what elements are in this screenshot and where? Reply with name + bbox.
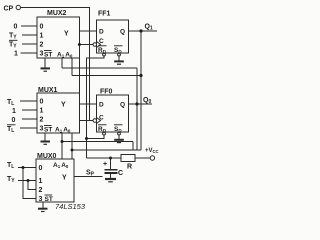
svg-text:2: 2: [39, 187, 43, 194]
svg-text:A1A0: A1A0: [55, 127, 71, 134]
wire FF1 RD to reset trunk: [87, 56, 105, 158]
wire MUX2 ST stub: [44, 58, 46, 68]
wire MUX1 ST stub: [44, 133, 46, 141]
svg-text:TY: TY: [7, 176, 15, 184]
clock bubble FF1: [93, 43, 97, 47]
overbar MUX1 ST: [44, 125, 52, 127]
mux MUX0 box: [36, 159, 74, 202]
svg-text:ST: ST: [45, 196, 53, 203]
wire MUX0 ST stub: [42, 202, 44, 208]
svg-text:Y: Y: [64, 31, 69, 38]
svg-text:FF0: FF0: [100, 89, 113, 96]
junction reset trunk / FF0 RD: [85, 137, 88, 140]
svg-text:MUX1: MUX1: [38, 87, 58, 94]
capacitor C stub bottom: [110, 174, 112, 179]
svg-text:2: 2: [40, 117, 44, 124]
junction Q1: [139, 29, 142, 32]
svg-text:1: 1: [39, 178, 43, 185]
wire ST node line: [87, 157, 122, 159]
wire CP to FF0 clock: [79, 120, 93, 122]
wire FF0 Q output: [129, 103, 153, 105]
svg-text:C: C: [118, 170, 123, 177]
svg-text:TL: TL: [7, 162, 14, 170]
svg-text:0: 0: [12, 117, 16, 124]
overbar MUX2 ST: [44, 50, 52, 52]
svg-text:3: 3: [39, 196, 43, 203]
ground under MUX1 ST: [41, 141, 51, 143]
junction cap tap: [109, 157, 112, 160]
svg-text:TL: TL: [7, 99, 14, 107]
wire Q1 trunk jog: [133, 142, 141, 151]
wire input TL to MUX0 pin0: [18, 167, 36, 169]
ground under FF1 SD: [114, 60, 124, 62]
capacitor C stub top: [110, 158, 112, 169]
wire input Tybar to MUX2 pin2: [22, 43, 37, 45]
wire FF1 Q output: [129, 30, 158, 32]
svg-text:D: D: [99, 29, 104, 36]
wire FF1 SD stub: [118, 56, 120, 61]
wire input 1 to MUX2 pin3: [21, 52, 38, 54]
ground under MUX0 ST: [38, 208, 48, 210]
svg-text:D: D: [99, 102, 104, 109]
svg-text:FF1: FF1: [98, 11, 111, 18]
wire gap2 upper feedback line: [62, 141, 133, 143]
wire Q1 trunk vertical: [140, 31, 142, 150]
svg-text:1: 1: [12, 108, 16, 115]
wire MUX1 A0 stub down to MUX0: [71, 133, 73, 159]
wire input TLbar to MUX1 pin3: [20, 127, 37, 129]
svg-text:SD: SD: [114, 126, 122, 133]
wire input 0 to MUX2 pin0: [21, 25, 37, 27]
flipflop FF0 box: [97, 95, 129, 132]
svg-text:TY: TY: [9, 42, 17, 50]
mux MUX2 box: [37, 17, 80, 58]
svg-text:TY: TY: [9, 33, 17, 41]
svg-text:0: 0: [40, 24, 44, 31]
wire MUX0 Y serial output: [74, 176, 103, 178]
junction Q1 trunk / gap1 lower: [139, 74, 142, 77]
junction TL branch: [22, 166, 25, 169]
svg-text:1: 1: [40, 108, 44, 115]
wire clock rail along mux edges: [78, 45, 80, 121]
terminal +Vcc circle: [150, 156, 154, 160]
svg-text:Y: Y: [62, 175, 67, 182]
svg-text:SP: SP: [86, 170, 95, 178]
capacitor C plates: [105, 169, 118, 171]
wire CP trunk vertical: [89, 8, 91, 122]
wire gap1 upper feedback line: [62, 67, 137, 69]
wire MUX1 A1 stub down to MUX0: [61, 133, 63, 159]
overbar Ty input: [9, 39, 18, 41]
pin bubble FF1 RD: [103, 53, 106, 56]
svg-text:3: 3: [40, 126, 44, 133]
svg-text:3: 3: [40, 51, 44, 58]
overbar FF0 RD: [98, 124, 107, 126]
ground under capacitor C: [105, 178, 116, 180]
clock wedge FF1: [97, 42, 101, 48]
svg-text:C: C: [99, 115, 104, 122]
junction A1 gap2: [61, 140, 64, 143]
clock bubble FF0: [93, 119, 97, 123]
svg-text:+VCC: +VCC: [145, 148, 159, 154]
svg-text:RD: RD: [98, 47, 107, 54]
wire MUX1 Y to FF0 D: [80, 103, 97, 105]
ground under FF0 SD: [114, 139, 124, 141]
wire CP to FF1 clock: [79, 44, 93, 46]
junction TY branch: [27, 179, 30, 182]
svg-text:MUX2: MUX2: [47, 10, 67, 17]
svg-text:ST: ST: [44, 52, 52, 59]
overbar FF1 SD: [114, 45, 123, 47]
svg-text:MUX0: MUX0: [37, 153, 57, 160]
svg-text:74LS153: 74LS153: [55, 202, 86, 211]
wire gap2 lower feedback line: [72, 149, 137, 151]
wire input TY to MUX0 pin1: [18, 180, 36, 182]
mux MUX1 box: [37, 93, 80, 133]
wire MUX2 Y to FF1 D: [80, 30, 97, 32]
junction CP-FF1C: [78, 43, 81, 46]
svg-text:RD: RD: [98, 126, 107, 133]
svg-text:2: 2: [40, 42, 44, 49]
terminal CP circle: [16, 5, 20, 9]
svg-text:0: 0: [39, 165, 43, 172]
svg-text:+: +: [103, 161, 107, 168]
clock wedge FF0: [97, 118, 101, 124]
overbar TL input: [7, 124, 16, 126]
svg-text:TL: TL: [7, 126, 14, 134]
wire FF0 SD stub: [118, 135, 120, 139]
svg-text:SD: SD: [114, 47, 122, 54]
wire MUX2 A1 stub: [61, 58, 63, 68]
svg-text:0: 0: [40, 99, 44, 106]
wire input 0 to MUX1 pin2: [22, 118, 37, 120]
ground under MUX2 ST: [41, 67, 51, 69]
svg-text:1: 1: [40, 33, 44, 40]
svg-text:Q: Q: [120, 29, 125, 36]
svg-text:Q: Q: [120, 102, 125, 109]
wire FF0 RD to reset trunk: [87, 135, 105, 139]
wire MUX2 A0 stub: [71, 58, 73, 76]
svg-text:0: 0: [14, 24, 18, 31]
svg-text:A1A0: A1A0: [53, 162, 69, 169]
junction Q0: [135, 102, 138, 105]
svg-text:C: C: [99, 38, 104, 45]
wire input 1 to MUX1 pin1: [22, 109, 37, 111]
overbar FF0 SD: [114, 124, 123, 126]
wire TY branch to MUX0 pin2: [28, 181, 36, 190]
wire TL branch to MUX0 pin3: [23, 168, 36, 199]
svg-text:R: R: [127, 164, 132, 171]
pin bubble FF0 RD: [103, 132, 106, 135]
resistor R: [121, 155, 135, 162]
wire CP horizontal: [21, 7, 91, 9]
svg-text:Q1: Q1: [145, 24, 153, 32]
overbar MUX0 ST: [45, 194, 53, 196]
flipflop FF1 box: [97, 20, 129, 53]
wire input TL to MUX1 pin0: [20, 100, 37, 102]
pin bubble FF1 SD: [118, 53, 121, 56]
wire input Ty to MUX2 pin1: [22, 34, 37, 36]
overbar FF1 RD: [98, 45, 107, 47]
svg-text:Y: Y: [61, 102, 66, 109]
wire R to Vcc terminal: [135, 157, 150, 159]
svg-text:ST: ST: [44, 127, 52, 134]
svg-text:Q0: Q0: [143, 97, 151, 105]
svg-text:CP: CP: [4, 6, 14, 13]
svg-text:1: 1: [14, 51, 18, 58]
wire Q0 trunk vertical: [136, 68, 138, 150]
svg-text:A1A0: A1A0: [57, 52, 73, 59]
junction A0 gap2: [71, 149, 74, 152]
wire gap1 lower feedback line: [72, 75, 141, 77]
pin bubble FF0 SD: [118, 132, 121, 135]
